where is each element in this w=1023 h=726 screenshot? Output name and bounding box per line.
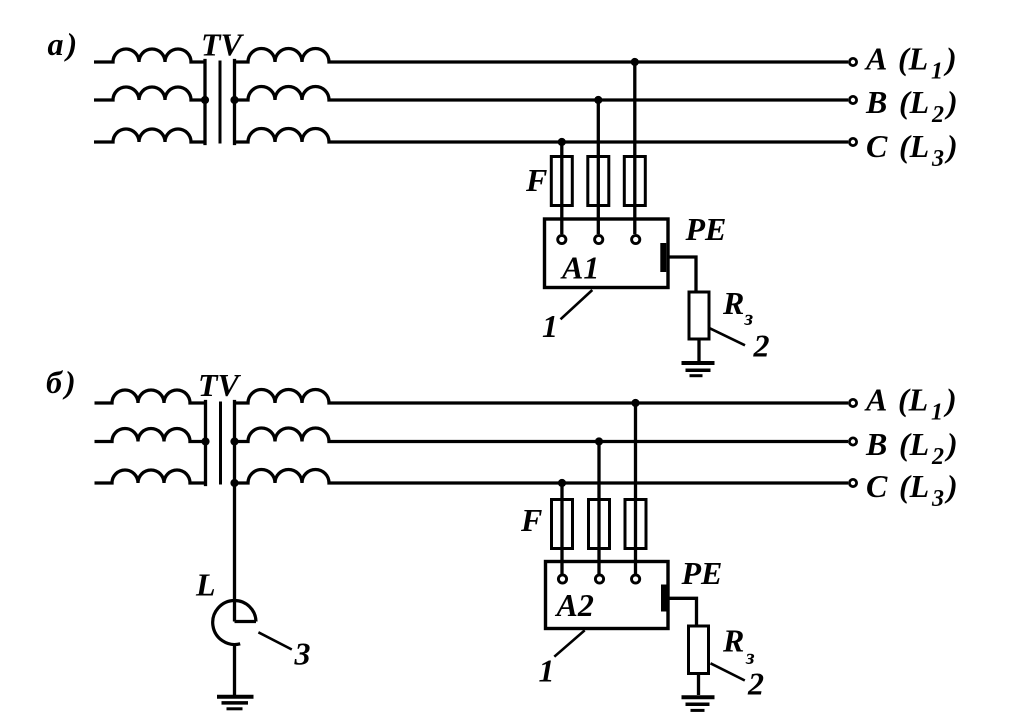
fuse F1 (fig b) — [552, 500, 573, 549]
fuse F2 (fig b) — [589, 500, 610, 549]
svg-text:TV: TV — [201, 27, 245, 63]
svg-text:C(L3): C(L3) — [866, 128, 958, 172]
terminal B (fig b) — [849, 438, 856, 445]
leader line to label 3 (fig b) — [258, 632, 291, 649]
svg-text:1: 1 — [539, 653, 555, 689]
input pin 3 of A2 — [632, 575, 640, 583]
ground symbol (fig b right) — [682, 695, 715, 699]
svg-text:A2: A2 — [555, 587, 594, 623]
device A1 box (fig a) — [545, 219, 669, 288]
junction on line B (fig a) — [594, 96, 602, 104]
transformer core (fig b) — [219, 402, 222, 485]
leader line to label 1 (fig b) — [554, 630, 584, 656]
device A2 box (fig b) — [546, 562, 669, 629]
transformer TV primary winding phase C (fig b) — [95, 470, 206, 483]
secondary winding phase A + line A (fig b) — [235, 390, 849, 404]
junction on primary bar (fig a) — [201, 96, 209, 104]
junction on line B (fig b) — [595, 437, 603, 445]
svg-text:B(L2): B(L2) — [865, 84, 958, 128]
breakdown fuse L: main arc — [213, 601, 241, 645]
junction on line A (fig a) — [631, 58, 639, 66]
wire breakdown fuse to ground (fig b) — [233, 645, 236, 696]
fuse F3 (fig a) — [624, 157, 645, 206]
breakdown fuse L: sector horizontal side — [235, 620, 257, 623]
secondary winding phase C + line C (fig b) — [235, 470, 849, 484]
svg-text:F: F — [525, 162, 547, 198]
transformer TV primary winding phase A (fig a) — [94, 49, 205, 62]
svg-text:3: 3 — [294, 636, 311, 672]
secondary winding phase B + line B (fig b) — [235, 428, 849, 442]
svg-text:PE: PE — [681, 555, 723, 591]
wire line C to fuse F1 (fig b) — [560, 483, 563, 574]
svg-text:B(L2): B(L2) — [865, 426, 958, 470]
svg-text:L: L — [195, 567, 216, 603]
wire line B to fuse F2 (fig b) — [597, 442, 600, 575]
svg-text:б): б) — [46, 364, 76, 400]
wire line C to fuse F1 (fig a) — [560, 142, 563, 234]
terminal C (fig a) — [849, 138, 856, 145]
leader line to label 2 (fig a) — [709, 328, 745, 346]
fuse F2 (fig a) — [588, 157, 609, 206]
svg-text:A(L1): A(L1) — [864, 41, 957, 85]
neutral wire from secondary bar down to breakdown fuse L (fig b) — [233, 483, 236, 622]
junction on secondary bar row B (fig b) — [230, 437, 238, 445]
terminal C (fig b) — [849, 479, 856, 486]
wire resistor to ground (fig a) — [697, 339, 700, 361]
svg-text:PE: PE — [685, 211, 727, 247]
svg-text:C(L3): C(L3) — [866, 468, 958, 512]
input pin 2 of A2 — [595, 575, 603, 583]
junction on primary bar (fig b) — [201, 437, 209, 445]
secondary winding phase A + line A (fig a) — [235, 49, 849, 63]
fuse F3 (fig b) — [625, 500, 646, 549]
svg-text:1: 1 — [542, 308, 558, 344]
fuse F1 (fig a) — [551, 157, 572, 206]
transformer TV primary winding phase B (fig b) — [95, 429, 206, 442]
input pin 1 of A1 — [558, 235, 566, 243]
transformer TV primary winding phase C (fig a) — [94, 129, 205, 142]
svg-text:з: з — [744, 305, 754, 330]
svg-text:A(L1): A(L1) — [864, 382, 957, 426]
junction on line C (fig a) — [558, 138, 566, 146]
svg-text:F: F — [520, 502, 542, 538]
wire PE to resistor R3 (fig a) — [667, 257, 696, 292]
terminal A (fig a) — [849, 58, 856, 65]
secondary winding phase B + line B (fig a) — [235, 87, 849, 101]
wire PE to resistor R3 (fig b) — [668, 598, 697, 626]
ground symbol under L (fig b) — [217, 695, 254, 699]
svg-text:a): a) — [48, 26, 78, 62]
svg-text:A1: A1 — [560, 250, 599, 286]
PE terminal bar (fig b) — [661, 585, 667, 612]
wire line A to fuse F3 (fig a) — [633, 62, 636, 234]
svg-text:2: 2 — [753, 328, 770, 364]
transformer TV primary winding phase A (fig b) — [95, 390, 206, 403]
junction on line C (fig b) — [558, 479, 566, 487]
junction on line A (fig b) — [631, 399, 639, 407]
grounding resistor R3 (fig a) — [689, 292, 709, 339]
terminal B (fig a) — [849, 96, 856, 103]
leader line to label 2 (fig b) — [711, 663, 745, 680]
svg-text:TV: TV — [198, 367, 242, 403]
transformer TV primary winding phase B (fig a) — [94, 87, 205, 100]
secondary star-point bar (fig a) — [233, 61, 236, 144]
wire line A to fuse F3 (fig b) — [634, 403, 637, 574]
leader line to label 1 (fig a) — [561, 290, 593, 319]
junction on secondary bar (fig a) — [230, 96, 238, 104]
input pin 1 of A2 — [558, 575, 566, 583]
primary star-point bar (fig a) — [203, 61, 206, 144]
wire line B to fuse F2 (fig a) — [597, 100, 600, 234]
svg-text:R: R — [722, 623, 744, 659]
secondary winding phase C + line C (fig a) — [235, 129, 849, 143]
secondary star-point bar (fig b) — [233, 402, 236, 485]
svg-text:R: R — [722, 285, 744, 321]
PE terminal bar (fig a) — [660, 243, 666, 272]
wire resistor to ground (fig b) — [697, 674, 700, 696]
breakdown fuse L: sector arc — [235, 601, 257, 622]
junction on secondary bar row C (fig b) — [230, 479, 238, 487]
input pin 3 of A1 — [632, 235, 640, 243]
grounding resistor R3 (fig b) — [689, 626, 709, 674]
primary star-point bar (fig b) — [204, 402, 207, 485]
terminal A (fig b) — [849, 399, 856, 406]
ground symbol (fig a) — [682, 361, 715, 365]
svg-text:2: 2 — [747, 666, 764, 702]
transformer core (fig a) — [219, 61, 222, 144]
input pin 2 of A1 — [595, 235, 603, 243]
